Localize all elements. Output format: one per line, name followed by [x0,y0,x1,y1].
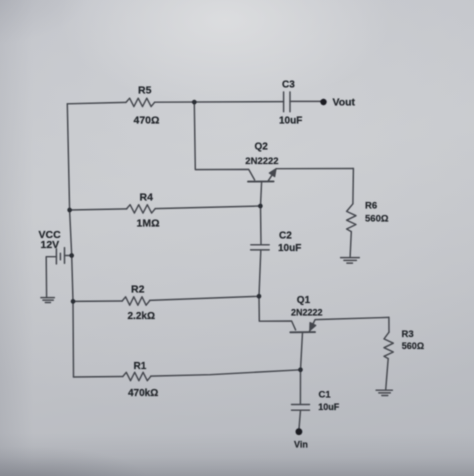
svg-text:Vin: Vin [294,440,308,450]
wire: R3 to ground [386,359,389,390]
svg-text:C1: C1 [319,390,332,401]
svg-text:2.2kΩ: 2.2kΩ [128,311,155,322]
wire: R4 to collector junction [155,206,260,209]
svg-text:R6: R6 [365,201,377,212]
wire: top row left segment [67,102,126,103]
node: R2 right [257,294,262,299]
terminal Vout [320,99,326,105]
svg-text:R3: R3 [402,329,414,340]
svg-text:1MΩ: 1MΩ [137,218,160,230]
wire: R3 column [388,317,390,332]
capacitor C1 [292,405,310,411]
node: battery [69,253,74,258]
node: R4 left [67,208,72,213]
svg-text:12V: 12V [41,239,60,251]
node: R4 right collector [258,204,263,209]
resistor R2 [122,297,149,305]
resistor R6 (vertical) [347,204,356,232]
battery VCC leads [46,256,71,298]
capacitor C3 [284,92,290,112]
ground (R3) [376,390,392,395]
wire: Q2 base drop [194,102,254,180]
wire: left rail [67,104,73,377]
svg-text:560Ω: 560Ω [365,214,389,225]
svg-text:470kΩ: 470kΩ [128,388,158,399]
wire: junction down to Q1 base [259,296,296,330]
resistor R5 [126,98,155,106]
wire: R2 to junction [150,296,259,300]
svg-text:Q1: Q1 [297,295,311,306]
wire: top row to C3 [155,101,284,104]
svg-text:2N2222: 2N2222 [245,156,278,167]
wire: C2 down to R2 junction [259,250,261,296]
svg-text:470Ω: 470Ω [134,115,160,127]
wire: C1 to Vin [299,410,301,429]
transistor Q1 [290,331,315,333]
svg-text:10uF: 10uF [279,116,302,127]
wire: R4 row [70,209,127,210]
wire: collector junction down to C2 [260,206,263,244]
svg-text:R2: R2 [131,284,145,296]
svg-text:R1: R1 [134,361,147,372]
capacitor C2 [251,245,270,250]
svg-text:10uF: 10uF [278,243,301,254]
node: R1 right emitter [298,368,303,373]
transistor Q2 [248,180,274,182]
terminal Vin [296,428,303,435]
resistor R1 [123,372,151,380]
svg-text:Q2: Q2 [255,142,269,153]
battery VCC plates [56,248,64,264]
wire: R6 column [352,169,355,204]
svg-text:2N2222: 2N2222 [291,308,323,318]
svg-text:Vout: Vout [333,96,356,108]
svg-text:R4: R4 [140,192,154,204]
node: top junction [192,100,197,105]
node: R2 left [71,299,76,304]
wire: C3 to Vout [290,100,323,102]
resistor R4 [127,205,156,213]
svg-text:10uF: 10uF [318,402,340,412]
svg-text:C2: C2 [279,231,292,242]
svg-text:C3: C3 [282,80,295,91]
ground (VCC) [41,298,55,303]
wire: R1 to junction [151,370,301,376]
wire: R6 to ground [350,232,351,258]
svg-text:R5: R5 [138,85,152,97]
ground (R6) [341,258,360,264]
wire: Q1 emitter junction to C1 [299,370,301,405]
wire: R1 row [74,376,123,379]
wire: R2 row [73,300,122,302]
svg-text:560Ω: 560Ω [402,341,424,351]
resistor R3 (vertical) [384,332,393,358]
